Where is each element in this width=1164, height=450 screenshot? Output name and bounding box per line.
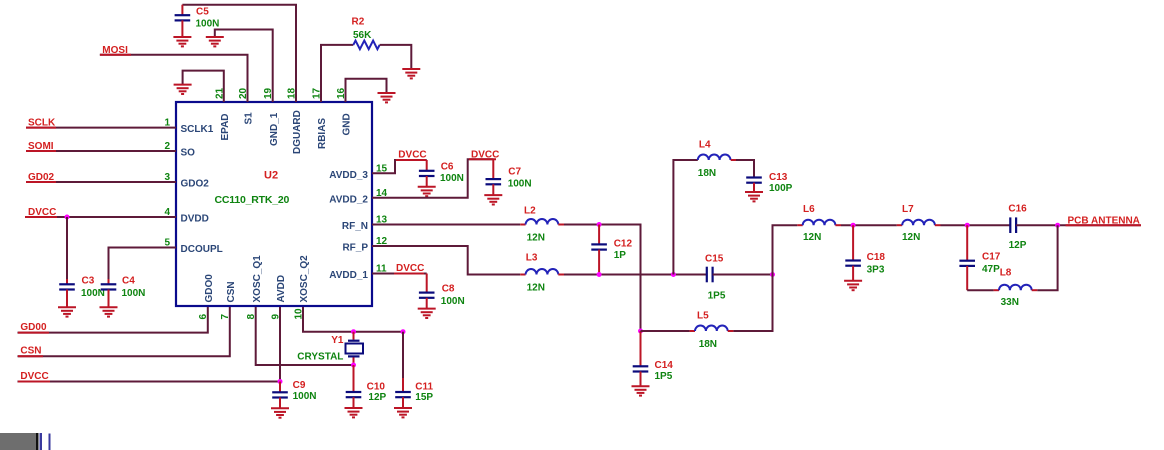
node MOSI label (100, 45, 131, 56)
svg-text:DGUARD: DGUARD (292, 110, 303, 154)
wire L4 branch up (673, 160, 697, 275)
wire L4 to C13 (736, 160, 754, 177)
svg-text:Y1: Y1 (331, 335, 344, 346)
svg-text:C14: C14 (655, 360, 674, 371)
inductor L3 (520, 252, 564, 293)
junction C18 (851, 223, 856, 228)
wire pin 14 AVDD_2 to DVCC (372, 159, 493, 197)
ground C8 (418, 309, 436, 318)
node CSN label (18, 346, 43, 357)
svg-text:1P: 1P (614, 250, 627, 261)
junction RF_N / C12 top (597, 222, 602, 227)
svg-text:C16: C16 (1008, 204, 1027, 215)
junction C14 / L5 (638, 329, 643, 334)
crystal Y1 (297, 332, 363, 365)
svg-text:1P5: 1P5 (655, 371, 673, 382)
inductor L2 (520, 206, 564, 244)
wire C3 tap (66, 217, 68, 279)
junction C12 bottom (597, 272, 602, 277)
capacitor C4 (101, 275, 146, 306)
ground EPAD (174, 85, 192, 94)
svg-text:AVDD_3: AVDD_3 (329, 170, 368, 181)
svg-text:RF_P: RF_P (342, 243, 368, 254)
ground C10 (345, 408, 363, 417)
svg-text:XOSC_Q1: XOSC_Q1 (252, 255, 263, 303)
capacitor C11 (395, 382, 433, 408)
wire DGUARD pin 18 to C5 (182, 5, 296, 102)
svg-text:12P: 12P (368, 392, 386, 403)
ground C18 (844, 281, 862, 290)
node DVCC label (18, 371, 50, 382)
svg-text:CRYSTAL: CRYSTAL (297, 351, 343, 362)
wire EPAD pin 21 to ground (183, 71, 224, 102)
wire L8 up to antenna node (1037, 225, 1057, 290)
capacitor C15 (705, 253, 726, 301)
svg-text:L7: L7 (902, 204, 914, 215)
capacitor C9 (272, 380, 316, 408)
svg-text:1P5: 1P5 (708, 291, 726, 302)
svg-text:18N: 18N (699, 339, 717, 350)
ground C4 (100, 307, 118, 316)
wire pin 15 AVDD_3 to DVCC (372, 160, 427, 173)
svg-text:100N: 100N (122, 288, 146, 299)
wire GND pin 16 to ground (346, 79, 387, 102)
inductor L7 (897, 204, 941, 243)
svg-text:C15: C15 (705, 253, 724, 264)
svg-text:RF_N: RF_N (342, 221, 368, 232)
resistor R2 (352, 16, 380, 49)
op-amp U2 CC110_RTK_20 IC body (176, 102, 372, 306)
svg-text:L8: L8 (1000, 267, 1012, 278)
svg-text:GDO0: GDO0 (204, 274, 215, 303)
svg-text:DVDD: DVDD (181, 213, 209, 224)
wire L2 to down-turn (564, 225, 641, 332)
node DVCC label (25, 207, 57, 218)
svg-text:CSN: CSN (20, 346, 41, 357)
wire pin 13 RF_N to L2 (372, 224, 520, 226)
svg-text:R2: R2 (352, 16, 365, 27)
svg-text:100N: 100N (440, 173, 464, 184)
svg-text:C3: C3 (82, 275, 95, 286)
svg-text:SO: SO (181, 147, 196, 158)
wire MOSI to pin 20 (100, 55, 248, 102)
wire pin 10 XOSC_Q2 to crystal top (303, 307, 403, 332)
junction DVCC / C9 (278, 379, 283, 384)
capacitor C12 (591, 225, 632, 275)
wire L5 left (641, 330, 690, 332)
wire L3 to C15 (564, 274, 707, 276)
svg-text:12N: 12N (803, 232, 821, 243)
capacitor C17 (959, 225, 1000, 290)
junction L4 branch (671, 272, 676, 277)
capacitor C14 (633, 331, 674, 386)
capacitor C16 (1008, 204, 1027, 252)
wire DVCC to pin 4 (25, 216, 176, 218)
svg-text:12N: 12N (527, 232, 545, 243)
inductor L4 (698, 140, 736, 180)
junction C15 output (770, 272, 775, 277)
svg-text:GND: GND (342, 113, 353, 135)
svg-text:15P: 15P (415, 392, 433, 403)
wire node up to L6 (773, 225, 798, 274)
svg-text:C12: C12 (614, 238, 633, 249)
capacitor C10 (346, 365, 387, 408)
node DVCC label at C8 (394, 263, 424, 274)
svg-text:XOSC_Q2: XOSC_Q2 (299, 255, 310, 303)
window artifact bottom-left (0, 433, 51, 450)
wire C17 to L8 (967, 289, 993, 291)
node SCLK label (26, 118, 56, 129)
svg-text:L6: L6 (803, 204, 815, 215)
node SOMI label (26, 141, 56, 152)
ground C7 (484, 195, 502, 204)
svg-text:33N: 33N (1001, 297, 1019, 308)
svg-text:CSN: CSN (226, 281, 237, 302)
node PCB ANTENNA label (1066, 215, 1142, 226)
svg-text:L4: L4 (699, 140, 711, 151)
svg-text:GD00: GD00 (20, 322, 47, 333)
ground C5 (173, 37, 191, 46)
svg-text:12P: 12P (1009, 240, 1027, 251)
node GD02 label (26, 172, 56, 183)
svg-text:3P3: 3P3 (867, 265, 885, 276)
wire GD02 to pin 3 (26, 181, 176, 183)
svg-text:AVDD_2: AVDD_2 (329, 194, 368, 205)
inductor L5 (690, 310, 734, 349)
wire pin 12 RF_P to L3 (372, 246, 520, 275)
wire DVCC to pin 9 (18, 307, 281, 382)
svg-text:AVDD: AVDD (276, 275, 287, 303)
capacitor C3 (59, 275, 105, 306)
svg-text:100N: 100N (196, 19, 220, 30)
svg-text:100P: 100P (769, 183, 793, 194)
capacitor C5 (175, 5, 220, 37)
capacitor C13 (746, 172, 792, 194)
svg-text:DCOUPL: DCOUPL (181, 244, 223, 255)
wire C16 to antenna node (1016, 224, 1141, 226)
svg-text:EPAD: EPAD (220, 113, 231, 140)
ground C11 (394, 408, 412, 417)
capacitor C7 (486, 159, 532, 194)
wire C11 drop (402, 332, 404, 392)
wire R2 to ground (380, 45, 412, 69)
svg-text:DVCC: DVCC (396, 263, 424, 274)
svg-text:C9: C9 (293, 380, 306, 391)
wire RBIAS pin 17 to R2 (321, 45, 353, 102)
wire pin 5 DCOUPL to C4 (109, 248, 177, 280)
svg-text:18N: 18N (698, 168, 716, 179)
ground GND_1 (206, 37, 224, 46)
capacitor C18 (845, 225, 885, 280)
capacitor C6 (419, 160, 464, 186)
wire SCLK to pin 1 (26, 127, 176, 129)
svg-text:L5: L5 (697, 310, 709, 321)
svg-text:AVDD_1: AVDD_1 (329, 270, 368, 281)
svg-text:GND_1: GND_1 (269, 112, 280, 146)
inductor L6 (797, 204, 841, 243)
junction crystal bottom (351, 363, 356, 368)
capacitor C8 (419, 274, 465, 309)
svg-text:56K: 56K (353, 30, 372, 41)
svg-text:C17: C17 (982, 251, 1001, 262)
svg-text:100N: 100N (441, 296, 465, 307)
svg-text:C8: C8 (442, 283, 455, 294)
wire L5 to C15 node (733, 275, 772, 332)
svg-text:SCLK1: SCLK1 (181, 124, 214, 135)
ground C3 (58, 307, 76, 316)
svg-text:100N: 100N (293, 391, 317, 402)
ground pin16 (378, 93, 396, 102)
svg-text:L2: L2 (524, 206, 536, 217)
ground R2 (402, 69, 420, 78)
wire GD00 to pin 6 (18, 307, 208, 333)
junction crystal top (351, 329, 356, 334)
node DVCC label at C6 (396, 149, 427, 160)
node GD00 label (18, 322, 49, 333)
junction C11 top (401, 329, 406, 334)
svg-text:47P: 47P (982, 264, 1000, 275)
wire pin 8 XOSC_Q1 to crystal bottom (256, 307, 354, 365)
svg-text:GDO2: GDO2 (181, 178, 210, 189)
svg-text:C18: C18 (867, 252, 886, 263)
ground C13 (745, 192, 763, 201)
pin numbers (164, 87, 387, 319)
wire C15 to node (713, 274, 773, 276)
wire pin 11 AVDD_1 to DVCC C8 (372, 273, 427, 275)
wire L7 to C17 node (941, 224, 1011, 226)
inductor L8 (994, 267, 1038, 308)
ground C6 (418, 187, 436, 196)
svg-text:DVCC: DVCC (398, 149, 426, 160)
svg-text:100N: 100N (508, 179, 532, 190)
svg-text:CC110_RTK_20: CC110_RTK_20 (215, 194, 290, 206)
svg-text:12N: 12N (527, 282, 545, 293)
svg-text:C5: C5 (196, 6, 209, 17)
wire SOMI to pin 2 (26, 150, 176, 152)
svg-text:C7: C7 (508, 167, 521, 178)
junction on DVCC at C3 (65, 215, 70, 220)
wire CSN to pin 7 (18, 307, 230, 356)
ground C9 (271, 408, 289, 417)
svg-text:U2: U2 (264, 170, 278, 182)
node DVCC label at C7 (469, 149, 499, 160)
wire L6 to C18 node (841, 224, 897, 226)
svg-text:12N: 12N (902, 232, 920, 243)
junction antenna node (1055, 223, 1060, 228)
svg-text:C13: C13 (769, 172, 788, 183)
svg-text:C4: C4 (122, 275, 135, 286)
wire GND_1 pin 19 to ground (215, 30, 273, 103)
svg-text:S1: S1 (244, 112, 255, 125)
svg-text:L3: L3 (526, 252, 538, 263)
junction C17 / C16 (965, 223, 970, 228)
svg-text:C6: C6 (441, 161, 454, 172)
svg-text:RBIAS: RBIAS (317, 118, 328, 149)
ground C14 (632, 386, 650, 395)
